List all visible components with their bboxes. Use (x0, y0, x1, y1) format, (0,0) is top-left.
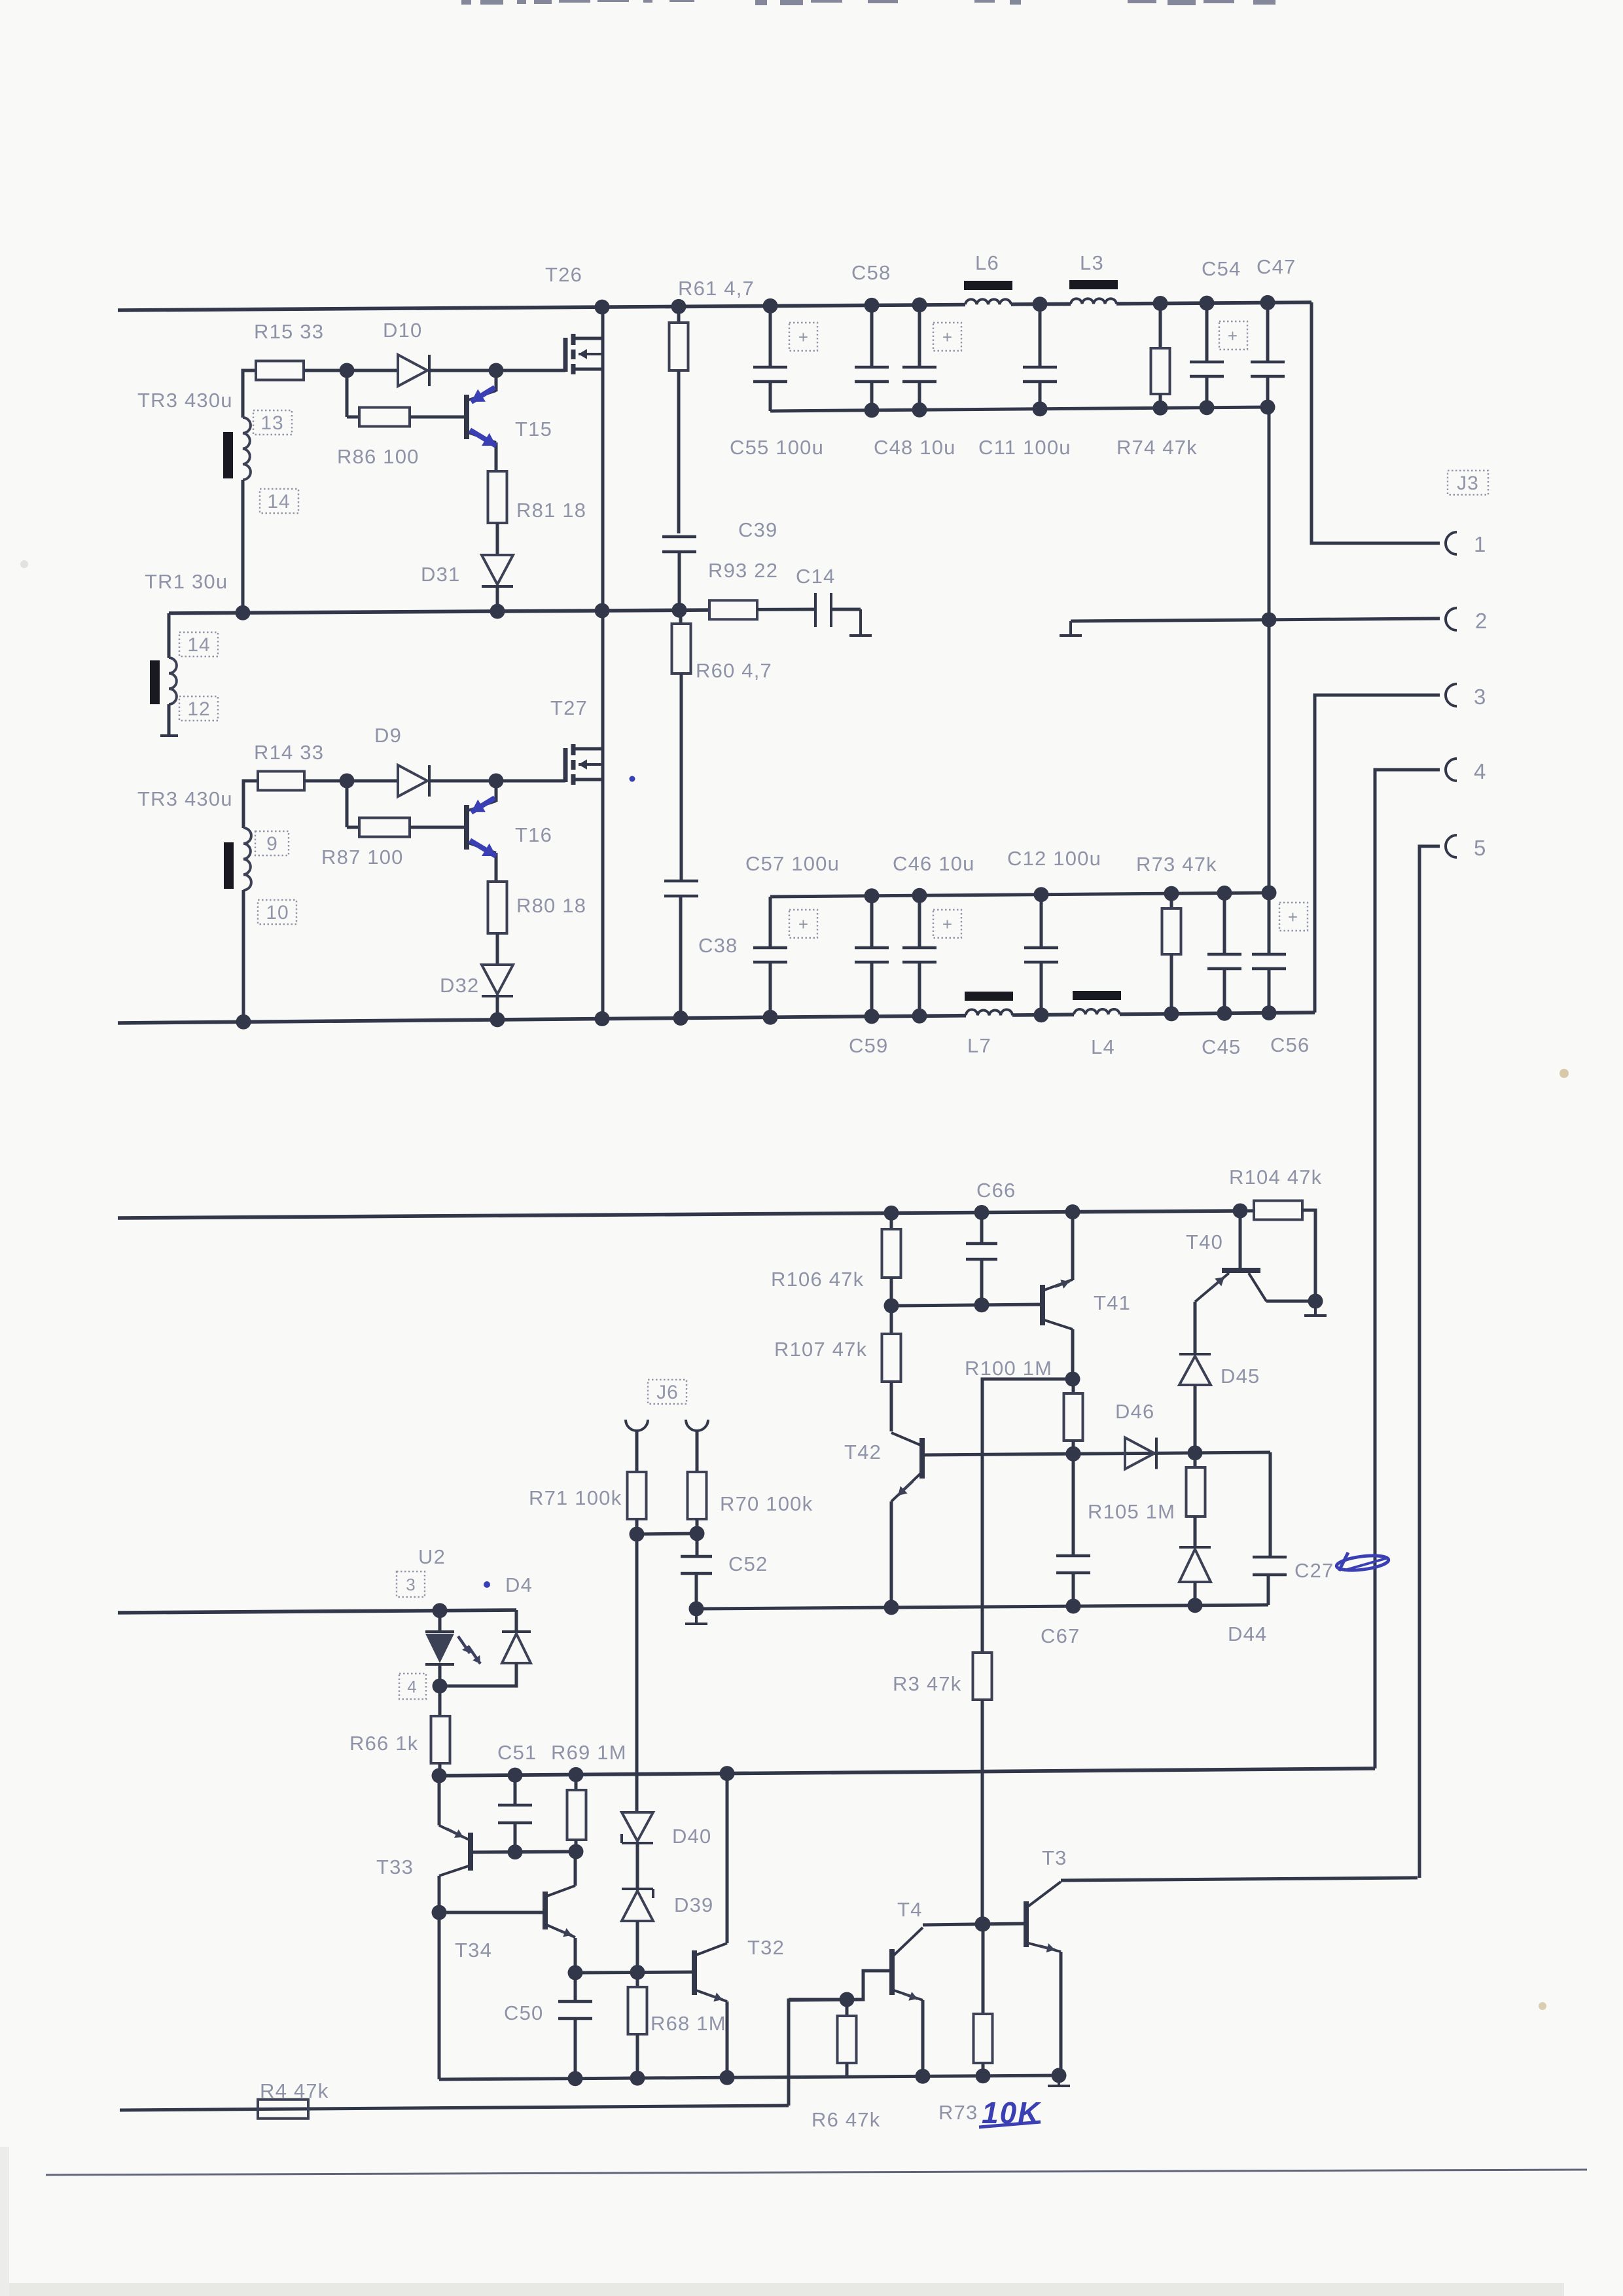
svg-text:C57 100u: C57 100u (745, 852, 840, 875)
transistor T42 (891, 1433, 922, 1607)
plus box C57 (789, 910, 817, 938)
node C67 bottom (1066, 1599, 1081, 1614)
pin box 14 (260, 489, 298, 513)
pin box 13 (253, 410, 292, 435)
svg-text:L3: L3 (1080, 251, 1104, 274)
resistor R81 (488, 471, 507, 555)
wire J3 pin3 (1315, 695, 1440, 1013)
wire T33 base node (471, 1852, 576, 1852)
svg-text:C14: C14 (796, 565, 835, 588)
plus box C55 (789, 323, 817, 351)
svg-text:R73 47k: R73 47k (1136, 853, 1217, 876)
zener D39 (622, 1889, 653, 1973)
resistor R105 (1186, 1453, 1205, 1547)
connector J3 pin2 (1446, 608, 1457, 630)
node C50 bottom (568, 2071, 583, 2086)
capacitor C46 (902, 895, 936, 1016)
svg-text:T32: T32 (747, 1936, 785, 1959)
svg-text:D10: D10 (383, 319, 422, 342)
svg-text:T27: T27 (550, 696, 588, 719)
svg-text:C54: C54 (1202, 257, 1241, 280)
node R6 top (840, 1992, 855, 2007)
scan bottom edge (0, 2283, 1564, 2296)
node R71 bottom (630, 1527, 645, 1542)
label C12 100u (1007, 847, 1101, 870)
resistor R106 (882, 1213, 901, 1306)
diode D32 (482, 965, 513, 1020)
label C45 (1202, 1035, 1241, 1058)
svg-text:D31: D31 (421, 563, 460, 586)
resistor R73 10k (974, 1924, 993, 2076)
wire lower-bank upper rail (770, 893, 1269, 897)
label C11 100u (978, 436, 1071, 459)
label R107 47k (774, 1338, 867, 1361)
label C66 (976, 1179, 1016, 1202)
node T4 emitter bottom (916, 2069, 931, 2084)
svg-text:C67: C67 (1041, 1624, 1080, 1647)
label TR1 30u (145, 570, 228, 593)
node C58 bottom (865, 403, 880, 418)
svg-text:R6 47k: R6 47k (811, 2108, 880, 2131)
capacitor C11 (1023, 304, 1057, 409)
label TR3 430u (137, 389, 233, 412)
capacitor C50 (558, 1973, 592, 2079)
label T4 (897, 1898, 923, 1921)
scan left edge (0, 2147, 9, 2296)
node R74 bottom (1153, 401, 1168, 416)
transistor T34 (545, 1852, 575, 1973)
svg-text:3: 3 (1474, 685, 1487, 709)
svg-text:D39: D39 (674, 1893, 713, 1916)
label C39 (738, 518, 777, 541)
capacitor C14 (815, 593, 872, 636)
svg-text:TR1 30u: TR1 30u (145, 570, 228, 593)
plus box C48 (933, 323, 961, 351)
wire mid rail (169, 610, 709, 613)
label C52 (728, 1552, 768, 1575)
node C48 top (912, 297, 927, 312)
node C38 bottom junction (673, 1011, 688, 1026)
capacitor C47 (1251, 302, 1285, 407)
blue handwriting 10K (979, 2096, 1041, 2130)
wire T4 collector line (923, 1924, 1026, 1925)
svg-text:D32: D32 (440, 974, 479, 997)
label D32 (440, 974, 479, 997)
svg-text:T4: T4 (897, 1898, 923, 1921)
label pin4 (1474, 759, 1487, 783)
resistor R60 (672, 610, 691, 881)
svg-text:C12 100u: C12 100u (1007, 847, 1101, 870)
label R74 47k (1116, 436, 1198, 459)
wire middle band rail (118, 1211, 1240, 1218)
label R71 100k (529, 1486, 622, 1509)
pin box u4 (399, 1674, 426, 1699)
svg-text:1: 1 (1474, 532, 1487, 556)
label D10 (383, 319, 422, 342)
node D44 bottom (1188, 1598, 1203, 1613)
label D4 (505, 1573, 533, 1596)
svg-text:C46 10u: C46 10u (893, 852, 975, 875)
blue arrow T15 collector (471, 387, 495, 402)
label TR3 430u b (137, 787, 233, 810)
svg-text:T15: T15 (515, 418, 552, 440)
node T40 collector junction (1308, 1294, 1323, 1309)
label R93 22 (708, 559, 778, 582)
svg-text:R73: R73 (938, 2101, 978, 2124)
wire T4 base (789, 1971, 892, 2000)
transistor T16 (467, 781, 496, 882)
label D44 (1228, 1623, 1267, 1645)
svg-text:R87 100: R87 100 (321, 846, 404, 869)
wire TR3 to mid rail (241, 480, 245, 613)
label R86 100 (337, 445, 419, 468)
svg-text:C45: C45 (1202, 1035, 1241, 1058)
capacitor C55 (753, 306, 787, 411)
transistor T33 (439, 1776, 471, 1912)
svg-text:T41: T41 (1094, 1291, 1131, 1314)
svg-text:C11 100u: C11 100u (978, 436, 1071, 459)
svg-text:T16: T16 (515, 823, 552, 846)
node C12 top (1034, 887, 1049, 902)
svg-text:+: + (942, 914, 953, 934)
label C54 (1202, 257, 1241, 280)
svg-text:R60 4,7: R60 4,7 (696, 659, 772, 682)
node C11 bottom (1033, 401, 1048, 416)
node R61 top (671, 299, 687, 314)
wire upper-bank lower rail (770, 407, 1269, 411)
label T41 (1094, 1291, 1131, 1314)
svg-text:T26: T26 (545, 263, 582, 286)
node C45 bottom (1217, 1006, 1232, 1021)
connector J3 pin3 (1446, 684, 1457, 706)
node U2 anode junction (433, 1603, 448, 1618)
node R104 left (1233, 1204, 1248, 1219)
label R69 1M (551, 1741, 627, 1764)
node R73 bottom (1164, 1006, 1179, 1021)
svg-text:14: 14 (267, 491, 290, 512)
connector J3 pin5 (1446, 835, 1457, 857)
label R73 value (938, 2101, 978, 2124)
mosfet T27 (565, 611, 603, 1019)
svg-text:R86 100: R86 100 (337, 445, 419, 468)
inductor L6 (964, 281, 1012, 304)
connector J3 pin1 (1446, 532, 1457, 554)
pin box 12 (179, 696, 218, 721)
node C46 bottom (912, 1009, 927, 1024)
node R69 top (569, 1767, 584, 1782)
node C66 bottom (974, 1297, 990, 1312)
node C51 top (508, 1768, 523, 1783)
optocoupler U2 LED (425, 1611, 454, 1686)
svg-text:2: 2 (1475, 609, 1488, 633)
svg-text:R104 47k: R104 47k (1229, 1166, 1322, 1189)
node T32 collector top (720, 1766, 735, 1781)
svg-text:R106 47k: R106 47k (771, 1268, 864, 1291)
svg-text:J3: J3 (1457, 473, 1479, 494)
capacitor C54 (1190, 303, 1224, 408)
node R68 bottom (630, 2071, 645, 2086)
svg-text:T33: T33 (376, 1856, 414, 1878)
capacitor C45 (1207, 893, 1241, 1014)
label T16 (515, 823, 552, 846)
label C46 10u (893, 852, 975, 875)
svg-text:R3 47k: R3 47k (893, 1672, 961, 1695)
transistor T41 (1043, 1212, 1073, 1379)
node R70 bottom (690, 1526, 705, 1541)
label R81 18 (516, 499, 586, 522)
node T26 source junction (595, 603, 610, 619)
capacitor C38 (664, 881, 698, 1018)
svg-text:D9: D9 (374, 724, 402, 747)
paper spot 1 (1560, 1069, 1569, 1078)
plus box C54 (1219, 321, 1247, 350)
resistor R104 (1240, 1201, 1315, 1302)
node U2 cathode junction (433, 1679, 448, 1694)
node C57 bottom (763, 1010, 778, 1025)
label C38 (698, 934, 738, 957)
LED light arrows U2 (458, 1636, 480, 1664)
pin box u3 (397, 1571, 425, 1597)
label D46 (1115, 1400, 1154, 1423)
wire J3 pin2 (1071, 619, 1440, 621)
resistor R6 (838, 2000, 857, 2077)
capacitor C12 (1024, 895, 1058, 1015)
node C45 top (1217, 886, 1232, 901)
wire T42 emitter rail (696, 1605, 1268, 1609)
label J3 box (1448, 471, 1488, 495)
wire R4 line (120, 2106, 789, 2110)
label D31 (421, 563, 460, 586)
resistor R14 (258, 772, 347, 791)
node R74 top (1153, 296, 1168, 311)
resistor R93 (709, 600, 815, 619)
label pin2 (1475, 609, 1488, 633)
capacitor C51 (498, 1775, 532, 1852)
node C59 bottom (865, 1009, 880, 1024)
svg-text:C51: C51 (497, 1741, 537, 1764)
svg-text:10: 10 (266, 902, 289, 924)
label L3 (1080, 251, 1104, 274)
ground T3 emitter (1048, 2068, 1070, 2087)
wire R4 to T4 base link (789, 2000, 863, 2106)
svg-text:C38: C38 (698, 934, 738, 957)
svg-text:12: 12 (187, 698, 210, 720)
label D40 (672, 1825, 711, 1848)
resistor R74 (1151, 304, 1170, 408)
resistor R107 (882, 1306, 901, 1431)
svg-text:C50: C50 (504, 2001, 543, 2024)
svg-text:C27: C27 (1294, 1559, 1334, 1582)
footer line (46, 2170, 1587, 2175)
node D45 bottom junction (1188, 1445, 1203, 1460)
inductor L4 (1073, 991, 1121, 1014)
label T3 (1042, 1846, 1067, 1869)
node C66 top (974, 1205, 990, 1220)
svg-text:R70 100k: R70 100k (720, 1492, 813, 1515)
wire top supply rail (118, 302, 1311, 310)
node R73b bottom (976, 2068, 991, 2083)
svg-text:R4 47k: R4 47k (260, 2079, 329, 2102)
svg-text:TR3 430u: TR3 430u (137, 787, 233, 810)
svg-text:+: + (1228, 326, 1238, 346)
svg-text:R66 1k: R66 1k (349, 1732, 418, 1755)
diode D31 (482, 555, 513, 611)
svg-text:L7: L7 (967, 1034, 991, 1057)
label T27 (550, 696, 588, 719)
svg-text:R14 33: R14 33 (254, 741, 324, 764)
svg-text:R68 1M: R68 1M (651, 2012, 726, 2035)
resistor R100 (1064, 1379, 1083, 1454)
label T15 (515, 418, 552, 440)
node zener/R68 junction (630, 1965, 645, 1980)
svg-text:D46: D46 (1115, 1400, 1154, 1423)
node R14/D9 junction (340, 774, 355, 789)
svg-text:L4: L4 (1091, 1035, 1115, 1058)
capacitor C48 (902, 305, 936, 410)
label C67 (1041, 1624, 1080, 1647)
core TR3-2 (224, 842, 234, 889)
svg-text:TR3 430u: TR3 430u (137, 389, 233, 412)
node C52 bottom (689, 1602, 704, 1617)
label J6 box (648, 1380, 687, 1404)
wire U2 rail (118, 1610, 516, 1613)
svg-text:T3: T3 (1042, 1846, 1067, 1869)
label R73 47k (1136, 853, 1217, 876)
transistor T3 (1026, 1882, 1061, 2075)
svg-text:C39: C39 (738, 518, 777, 541)
svg-text:R81 18: R81 18 (516, 499, 586, 522)
node C67 top junction (1066, 1446, 1081, 1462)
svg-text:C47: C47 (1257, 255, 1296, 278)
node C47 top (1260, 295, 1275, 310)
wire T41 base node (891, 1304, 1043, 1306)
svg-text:U2: U2 (418, 1545, 446, 1568)
wire T33 collector down (438, 1912, 441, 2079)
wire T3 collector line (1061, 1878, 1418, 1880)
blue arrow T16 emitter (470, 840, 496, 856)
diode D4 (440, 1610, 531, 1686)
label T34 (455, 1939, 492, 1962)
node T34 base junction (432, 1905, 447, 1920)
label L7 (967, 1034, 991, 1057)
node C58 top (865, 298, 880, 313)
node TR3-1 mid junction (236, 605, 251, 620)
node C54 top (1200, 296, 1215, 311)
wire T34 base node (439, 1911, 545, 1914)
node C54 bottom (1200, 400, 1215, 415)
svg-text:4: 4 (407, 1677, 417, 1696)
wire TR3-2 top feed (243, 781, 258, 828)
svg-text:+: + (798, 914, 809, 934)
label R87 100 (321, 846, 404, 869)
label C55 100u (730, 436, 824, 459)
svg-text:R71 100k: R71 100k (529, 1486, 622, 1509)
label R70 100k (720, 1492, 813, 1515)
label C48 10u (874, 436, 956, 459)
label C51 (497, 1741, 537, 1764)
svg-text:C56: C56 (1270, 1033, 1310, 1056)
resistor R61 (669, 306, 688, 533)
connector J6 pin2 (686, 1420, 708, 1431)
diode D44 (1179, 1547, 1211, 1605)
label T42 (844, 1441, 882, 1463)
label D39 (674, 1893, 713, 1916)
svg-text:R15 33: R15 33 (254, 320, 324, 343)
wire bottom rail (118, 1013, 1315, 1023)
blue dot near T27 (630, 776, 635, 782)
wire gate T27 (496, 780, 565, 783)
scan top edge artifacts (461, 0, 1275, 5)
resistor R86 (347, 370, 467, 427)
label R6 47k (811, 2108, 880, 2131)
svg-text:R107 47k: R107 47k (774, 1338, 867, 1361)
resistor R69 (567, 1774, 586, 1852)
node T41 collector junction (1065, 1372, 1080, 1387)
zener D40 (622, 1812, 653, 1889)
wire R3 column (973, 1379, 992, 1924)
wire R66 bottom rail (439, 1768, 1375, 1776)
svg-text:R105 1M: R105 1M (1088, 1500, 1175, 1523)
wire J3 pin4 (1375, 770, 1440, 1768)
label R60 4,7 (696, 659, 772, 682)
label L4 (1091, 1035, 1115, 1058)
capacitor C39 (662, 537, 696, 610)
transistor T40 (1195, 1211, 1315, 1302)
wire gate T26 (496, 369, 565, 372)
label T32 (747, 1936, 785, 1959)
transformer TR1 winding 14-12 (169, 613, 177, 734)
resistor R80 (488, 882, 507, 965)
label R61 4,7 (678, 277, 755, 300)
transformer TR3 winding 9-10 (243, 828, 251, 890)
node D32 bottom junction (490, 1012, 505, 1027)
ground TR1 (160, 734, 178, 737)
svg-text:4: 4 (1474, 759, 1487, 783)
blue arrow T16 collector (471, 798, 495, 812)
diode D45 (1179, 1302, 1211, 1453)
node R106/R107 junction (884, 1299, 899, 1314)
connector J3 pin4 (1446, 759, 1457, 781)
ground C52 (685, 1609, 707, 1624)
node C48 bottom (912, 403, 927, 418)
resistor R4 (258, 2100, 308, 2119)
wire J3 pin1 (1311, 302, 1440, 543)
node T42 emitter bottom (884, 1600, 899, 1615)
svg-text:+: + (1288, 907, 1298, 927)
wire R100 link (982, 1379, 1073, 1653)
capacitor C67 (1056, 1454, 1090, 1606)
core TR1 (150, 660, 160, 704)
ground T40 (1304, 1301, 1327, 1316)
node T27 source junction (595, 1011, 610, 1026)
wire J6 node (637, 1534, 697, 1534)
label R15 33 (254, 320, 324, 343)
capacitor C27 (1253, 1557, 1287, 1605)
connector J6 pin1 (626, 1420, 648, 1431)
label R100 1M (965, 1357, 1052, 1380)
node C47 bottom (1260, 400, 1275, 415)
inductor L3 (1069, 280, 1118, 304)
label C50 (504, 2001, 543, 2024)
label pin5 (1474, 836, 1487, 860)
mosfet T26 (565, 307, 603, 611)
node R73 top (1164, 886, 1179, 901)
node C46 top (912, 888, 927, 903)
wire J3 pin2 vertical (1268, 407, 1271, 893)
capacitor C52 (681, 1534, 712, 1609)
svg-text:C55 100u: C55 100u (730, 436, 824, 459)
wire T42 base line (922, 1452, 1270, 1455)
